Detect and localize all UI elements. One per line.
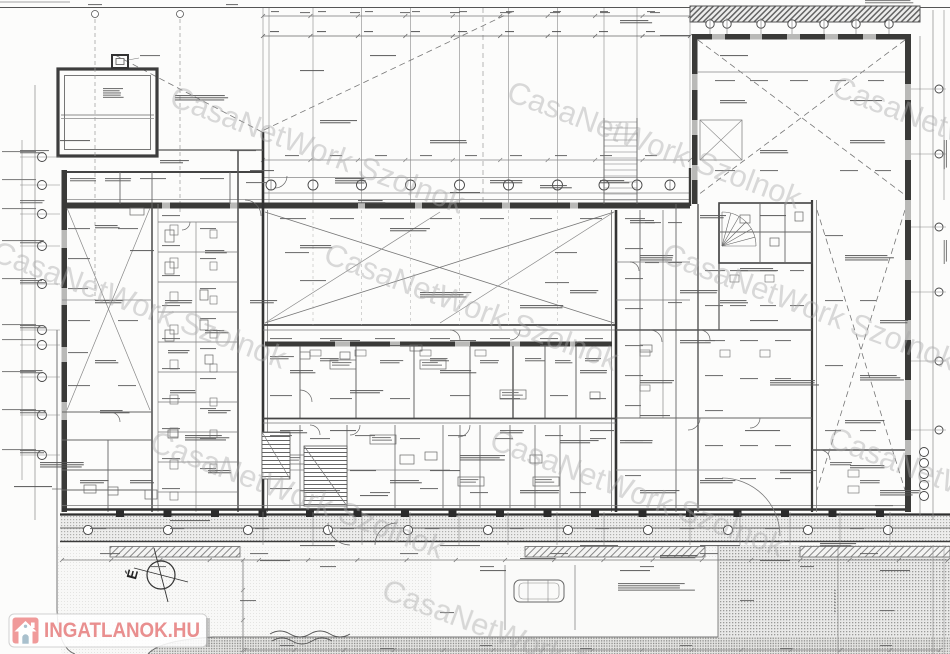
svg-text:INGATLANOK.HU: INGATLANOK.HU	[44, 619, 200, 642]
